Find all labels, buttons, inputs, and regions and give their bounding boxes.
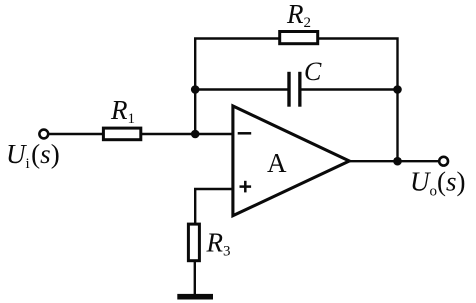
node C (capacitor to feedback bus junction): [393, 85, 402, 94]
svg-text:Uo(s): Uo(s): [410, 167, 466, 200]
label C: [304, 57, 322, 86]
svg-text:C: C: [304, 57, 322, 86]
op-amp U1: [233, 106, 349, 216]
resistor R1: [103, 128, 140, 140]
resistor R3: [188, 224, 199, 261]
ground: [177, 294, 213, 300]
svg-text:A: A: [267, 148, 287, 178]
node B (junction at capacitor branch left): [191, 85, 200, 94]
minus sign (inverting pin mark): [238, 132, 252, 135]
node A (junction at inverting input): [191, 130, 200, 139]
label Ui(s): [6, 139, 60, 172]
wire input to inverting input: [48, 133, 233, 135]
wire capacitor branch right segment: [301, 88, 397, 90]
wire non-inverting input: [195, 189, 233, 224]
label R2: [286, 0, 311, 31]
input terminal: [39, 130, 48, 139]
svg-text:R1: R1: [110, 95, 135, 127]
plus sign (non-inverting pin mark): [240, 181, 252, 193]
wire op-amp output: [348, 160, 440, 162]
wire R3 to ground: [194, 261, 196, 295]
output terminal: [439, 157, 448, 166]
svg-text:Ui(s): Ui(s): [6, 139, 60, 172]
wire capacitor branch left segment: [195, 88, 287, 90]
wire feedback bus: [195, 39, 397, 162]
label R3: [206, 228, 231, 260]
svg-text:R2: R2: [286, 0, 311, 31]
node D (output junction): [393, 157, 402, 166]
capacitor C: [287, 72, 301, 107]
label Uo(s): [410, 167, 466, 200]
label A: [267, 148, 287, 178]
label R1: [110, 95, 135, 127]
resistor R2: [280, 32, 318, 44]
svg-text:R3: R3: [206, 228, 231, 260]
